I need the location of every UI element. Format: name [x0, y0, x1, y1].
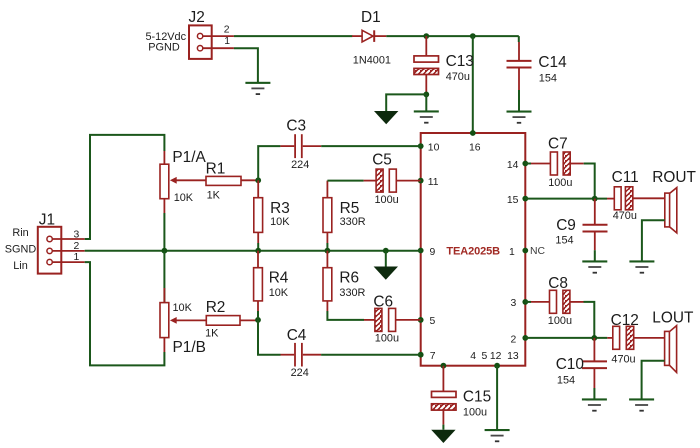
svg-text:3: 3 [511, 298, 517, 309]
resistor R3 10K [254, 180, 290, 243]
svg-text:R3: R3 [270, 200, 290, 217]
svg-text:J1: J1 [39, 211, 55, 228]
svg-text:15: 15 [507, 195, 519, 206]
wire Lin: J1 pin1 down and across to P1/B bottom [85, 262, 165, 365]
node pin 7 [418, 352, 424, 358]
wire Rin: J1 pin3 up and across to P1/A top [85, 135, 165, 239]
capacitor C13 470u [414, 36, 474, 94]
svg-text:R4: R4 [269, 270, 289, 287]
capacitor C11 470u [607, 169, 665, 222]
svg-text:100u: 100u [375, 332, 399, 344]
node pin 15 [522, 196, 528, 202]
svg-text:R2: R2 [206, 299, 226, 316]
svg-text:470u: 470u [446, 71, 470, 83]
wire C14 to earth ground [518, 90, 520, 112]
svg-text:Lin: Lin [13, 260, 28, 272]
svg-text:C4: C4 [287, 327, 307, 344]
svg-text:2: 2 [224, 25, 230, 36]
svg-text:5: 5 [482, 351, 488, 362]
svg-text:1: 1 [509, 247, 515, 258]
svg-text:11: 11 [428, 177, 439, 188]
J2 pin 1 stub [203, 36, 234, 48]
node C8/C10 on pin2 net [591, 335, 597, 341]
diode D1 1N4001 [352, 9, 391, 67]
capacitor C8 100u [525, 275, 583, 327]
J1 pin 2 stub [52, 241, 84, 252]
earth ground below C14 [507, 111, 532, 124]
svg-text:PGND: PGND [148, 41, 180, 53]
svg-text:R6: R6 [339, 270, 359, 287]
earth ground below C10 [582, 398, 607, 411]
svg-text:TEA2025B: TEA2025B [446, 245, 500, 257]
wire C3 to IC pin 10 [321, 145, 421, 147]
wire C10 to earth [593, 388, 595, 399]
capacitor C15 100u [432, 366, 492, 425]
svg-text:330R: 330R [339, 287, 365, 299]
wire C13 to earth ground [425, 94, 427, 111]
svg-text:C9: C9 [556, 217, 576, 234]
wire LOUT speaker bottom to earth [642, 361, 665, 400]
node R3/R4 on SGND [255, 248, 261, 254]
earth ground below IC [485, 429, 510, 442]
svg-text:P1/B: P1/B [173, 339, 206, 356]
J1 pin 1 stub [52, 252, 84, 263]
wire R4 bottom to node [257, 311, 259, 320]
resistor R2 1K [205, 299, 258, 340]
svg-text:10K: 10K [173, 302, 193, 314]
svg-text:7: 7 [430, 351, 436, 362]
wire node down to C4 [258, 320, 281, 355]
svg-text:C3: C3 [286, 118, 306, 135]
node pin 16 [470, 130, 476, 136]
wire C4 to IC pin 7 [321, 354, 421, 356]
earth ground below C9 [582, 260, 607, 273]
wire SGND to triangle [385, 251, 387, 267]
wire C13 to PGND triangle [386, 94, 426, 111]
wire J2 pin2 to D1 anode [234, 35, 353, 37]
node R1/R3/C3 [255, 177, 261, 183]
node pin 11 [418, 178, 424, 184]
wire SGND: J1 pin2 to IC pin 9 [85, 250, 421, 252]
wire ROUT speaker bottom to earth [642, 220, 665, 261]
svg-text:10K: 10K [270, 216, 290, 228]
svg-text:224: 224 [291, 159, 309, 171]
svg-text:SGND: SGND [5, 244, 37, 256]
svg-text:10K: 10K [174, 192, 194, 204]
svg-text:1K: 1K [205, 328, 219, 340]
svg-text:4: 4 [470, 351, 476, 362]
connector J1 [5, 211, 62, 273]
wire R5 top to C5 [327, 180, 363, 182]
wire IC pin 12 to earth [496, 366, 498, 430]
wire C7 right down to pin15 net [584, 164, 595, 199]
svg-text:470u: 470u [613, 210, 637, 222]
connector J2 [146, 9, 212, 59]
svg-text:P1/A: P1/A [172, 149, 206, 166]
svg-text:16: 16 [469, 142, 481, 153]
svg-text:C10: C10 [556, 356, 584, 373]
J1 pin 3 stub [52, 230, 84, 241]
svg-text:10K: 10K [269, 287, 289, 299]
svg-text:R5: R5 [340, 200, 360, 217]
svg-text:224: 224 [291, 367, 309, 379]
node P1/A bottom on SGND [162, 248, 168, 254]
ground below J2 [245, 82, 270, 95]
node pin 12 (gnd) [494, 363, 500, 369]
wire pin 15 to C11 [525, 198, 607, 200]
svg-text:9: 9 [430, 247, 436, 258]
svg-text:J2: J2 [189, 9, 205, 26]
svg-text:D1: D1 [361, 9, 381, 26]
svg-text:13: 13 [507, 351, 519, 362]
svg-text:1: 1 [224, 36, 230, 47]
node R2/R4/C4 [255, 317, 261, 323]
capacitor C5 100u [364, 152, 421, 206]
node pin 5 [418, 317, 424, 323]
svg-text:100u: 100u [548, 315, 572, 327]
wire D1 cathode to C14 (VCC top rail) [386, 35, 519, 37]
svg-text:2: 2 [511, 334, 517, 345]
svg-text:C15: C15 [463, 389, 491, 406]
PGND triangle at SGND [374, 267, 398, 280]
svg-text:470u: 470u [611, 354, 635, 366]
resistor R5 330R [323, 181, 366, 243]
earth ground below ROUT [629, 260, 654, 273]
node pin 6 (C15) [441, 363, 447, 369]
wire R6 bottom to C6 [327, 311, 364, 320]
capacitor C4 224 [281, 327, 322, 379]
node SGND triangle branch [383, 248, 389, 254]
node pin 10 [418, 143, 424, 149]
svg-text:C5: C5 [372, 152, 392, 169]
wire J2 pin1 to ground [234, 48, 258, 83]
svg-text:330R: 330R [340, 216, 366, 228]
earth ground below C13 [414, 110, 439, 123]
wire C15 to PGND triangle [442, 425, 444, 430]
J2 pin 2 stub [203, 25, 234, 36]
svg-text:C8: C8 [548, 275, 568, 292]
potentiometer P1/B [160, 251, 206, 356]
svg-text:LOUT: LOUT [652, 310, 694, 327]
svg-text:C11: C11 [612, 169, 639, 186]
svg-text:10: 10 [428, 142, 440, 153]
svg-text:100u: 100u [375, 194, 399, 206]
capacitor C7 100u [525, 136, 583, 189]
resistor R6 330R [323, 251, 366, 311]
svg-text:154: 154 [557, 375, 575, 387]
node below C13 [423, 92, 429, 98]
node pin 1 [522, 248, 528, 254]
wire R3 bottom to SGND [257, 243, 259, 251]
svg-text:NC: NC [530, 246, 546, 257]
svg-text:1N4001: 1N4001 [353, 55, 391, 67]
node pin 2 [522, 335, 528, 341]
svg-text:100u: 100u [463, 407, 487, 419]
wire P1/A wiper handled above; wire P1/A bottom to SGND [163, 213, 165, 251]
wire C8 right down to pin2 net [584, 302, 595, 338]
svg-text:C13: C13 [446, 53, 474, 70]
PGND triangle below C13 [374, 111, 398, 124]
svg-text:ROUT: ROUT [652, 169, 696, 186]
potentiometer P1/A [160, 149, 207, 213]
svg-text:Rin: Rin [12, 227, 28, 239]
IC U1 TEA2025B body [421, 133, 526, 366]
resistor R4 10K [254, 251, 289, 311]
capacitor C6 100u [364, 294, 421, 345]
node pin 3 [522, 299, 528, 305]
wire VCC down to pin 16 [472, 36, 474, 133]
node pin 9 [418, 248, 424, 254]
capacitor C12 470u [607, 312, 664, 366]
wire pin 2 to C12 [525, 337, 607, 339]
wire R5 bottom to SGND [326, 243, 328, 251]
capacitor C10 154 [556, 338, 607, 388]
svg-text:12: 12 [490, 351, 502, 362]
capacitor C3 224 [280, 118, 321, 172]
wire node up to C3 level [258, 146, 280, 180]
speaker ROUT [652, 169, 696, 233]
svg-text:1: 1 [74, 252, 80, 263]
svg-text:1K: 1K [207, 190, 221, 202]
wire C9 to earth [594, 250, 596, 261]
svg-text:5: 5 [430, 316, 436, 327]
resistor R1 1K [206, 161, 259, 202]
node VCC at pin16 branch [470, 33, 476, 39]
node pin 14 [522, 161, 528, 167]
svg-text:100u: 100u [548, 177, 572, 189]
PGND triangle below C15 [431, 430, 455, 443]
capacitor C14 154 [507, 36, 568, 90]
svg-text:154: 154 [555, 235, 573, 247]
svg-text:R1: R1 [206, 161, 226, 178]
svg-text:C7: C7 [548, 136, 568, 153]
capacitor C9 154 [555, 199, 607, 251]
earth ground below LOUT [629, 398, 654, 411]
speaker LOUT [652, 310, 694, 373]
node R5/R6 on SGND [325, 248, 331, 254]
svg-text:C14: C14 [538, 54, 567, 71]
node VCC at C13 [423, 33, 429, 39]
node C7/C9 on pin15 net [592, 196, 598, 202]
svg-text:154: 154 [539, 72, 557, 84]
svg-text:14: 14 [507, 160, 519, 171]
